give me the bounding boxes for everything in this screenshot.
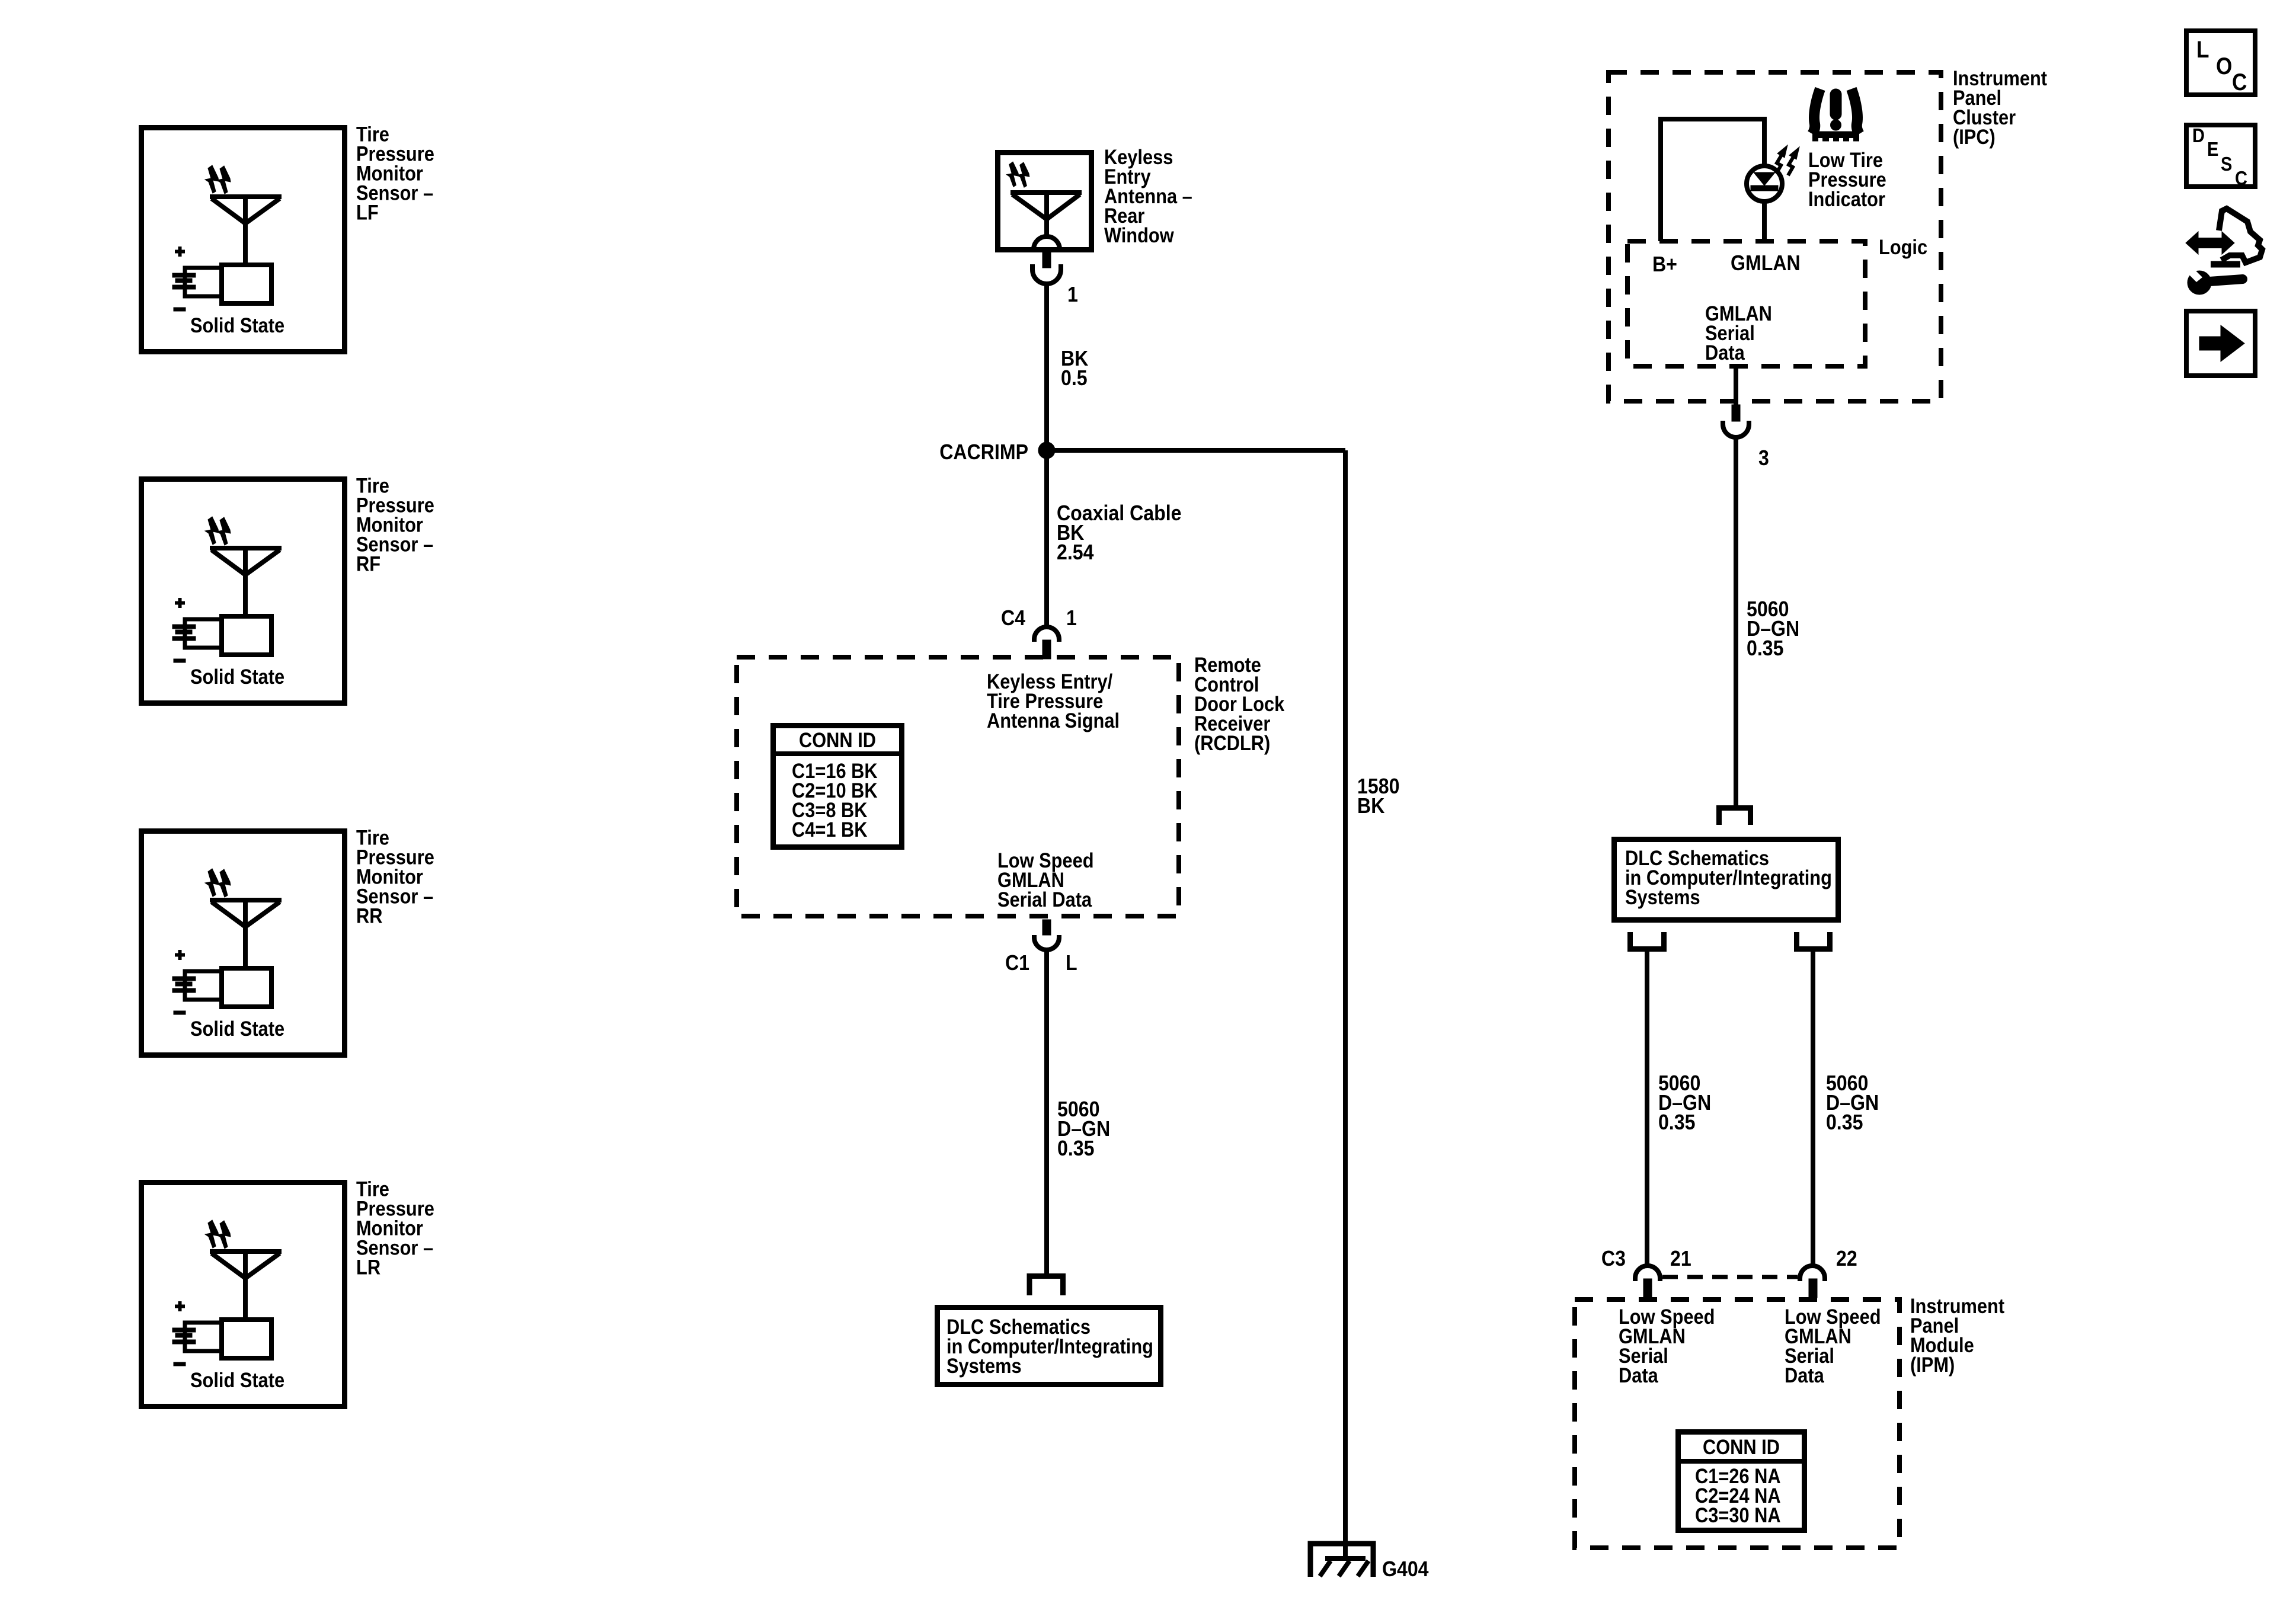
battery plates LR xyxy=(172,1328,196,1344)
connector 3 cup xyxy=(1723,421,1749,437)
antenna symbol LF xyxy=(210,197,282,265)
wrench icon xyxy=(2183,264,2243,295)
CACRIMP junction xyxy=(1038,442,1055,459)
svg-text:(IPM): (IPM) xyxy=(1910,1353,1955,1376)
RF waves symbol RF xyxy=(205,517,231,545)
connector C3 arc 22 xyxy=(1800,1266,1825,1281)
Solid State label RR xyxy=(190,1017,284,1040)
keyless antenna symbol xyxy=(1011,193,1082,236)
svg-text:1: 1 xyxy=(1066,606,1077,630)
svg-text:CONN ID: CONN ID xyxy=(1703,1435,1780,1458)
RCDLR antenna signal text xyxy=(987,670,1120,732)
bracket to DLC right xyxy=(1719,808,1751,825)
IPM dashed box xyxy=(1575,1299,1900,1548)
svg-text:Serial Data: Serial Data xyxy=(997,888,1092,911)
connector C4 cup xyxy=(1034,627,1059,642)
antenna symbol RF xyxy=(210,548,282,616)
svg-text:1: 1 xyxy=(1067,283,1078,306)
keyless antenna waves xyxy=(1006,162,1029,187)
label 5060 middle xyxy=(1057,1097,1110,1160)
svg-text:Logic: Logic xyxy=(1879,235,1927,258)
RF waves symbol LR xyxy=(205,1220,231,1249)
component outline icon xyxy=(2211,209,2262,264)
sensor body LR xyxy=(222,1320,271,1358)
CONN ID table RCDLR xyxy=(770,726,904,847)
Solid State label LR xyxy=(190,1368,284,1391)
LOC icon box xyxy=(2186,31,2255,95)
svg-text:22: 22 xyxy=(1836,1247,1857,1270)
svg-text:Solid State: Solid State xyxy=(190,313,284,337)
sensor body RF xyxy=(222,616,271,655)
connector C3 labels xyxy=(1601,1247,1857,1270)
wire junction to 1580 xyxy=(1047,448,1345,453)
antenna symbol RR xyxy=(210,900,282,968)
pin 1 female cup xyxy=(1032,264,1061,284)
forward arrow icon box xyxy=(2186,311,2255,376)
connector C4 stub xyxy=(1043,640,1051,659)
svg-text:Indicator: Indicator xyxy=(1808,187,1885,210)
label B+ xyxy=(1652,252,1677,276)
svg-text:Window: Window xyxy=(1104,223,1174,247)
svg-text:C1: C1 xyxy=(1005,951,1029,975)
DESC icon box xyxy=(2186,125,2255,187)
svg-text:0.35: 0.35 xyxy=(1658,1110,1695,1134)
connector C1 cup xyxy=(1034,935,1059,950)
connector 3 label xyxy=(1758,446,1769,470)
sensor box TPM LR xyxy=(142,1183,345,1407)
battery loop wire RR xyxy=(185,971,220,1000)
low tire pressure warning icon xyxy=(1812,89,1859,142)
connector bump on box xyxy=(1034,236,1060,249)
wire 5060 middle xyxy=(1044,950,1049,1276)
svg-text:L: L xyxy=(2196,36,2209,63)
svg-text:O: O xyxy=(2216,53,2232,79)
pin 1 male stub xyxy=(1043,251,1051,268)
wire logic out xyxy=(1734,366,1738,405)
svg-text:GMLAN: GMLAN xyxy=(1731,251,1801,275)
connector 3 stub xyxy=(1732,405,1740,421)
wire LED net xyxy=(1762,117,1767,241)
svg-text:Data: Data xyxy=(1619,1363,1658,1387)
svg-text:Data: Data xyxy=(1785,1363,1824,1387)
svg-text:0.5: 0.5 xyxy=(1061,366,1088,390)
plus sign LF xyxy=(175,247,185,257)
svg-text:Systems: Systems xyxy=(1625,885,1700,908)
ground G404 symbol xyxy=(1310,1544,1373,1577)
wire B+ net xyxy=(1661,119,1764,241)
sensor name label RR xyxy=(356,826,434,927)
svg-text:Data: Data xyxy=(1705,341,1745,364)
svg-text:C3: C3 xyxy=(1601,1247,1626,1270)
IPM low speed text 22 xyxy=(1785,1305,1881,1387)
svg-text:0.35: 0.35 xyxy=(1057,1137,1094,1160)
svg-text:Solid State: Solid State xyxy=(190,665,284,688)
svg-text:C4=1 BK: C4=1 BK xyxy=(792,818,868,841)
connector C4 labels xyxy=(1001,606,1077,630)
cup under DLC left xyxy=(1630,932,1664,949)
IPC dashed box xyxy=(1609,72,1941,401)
DLC schematics box middle xyxy=(938,1308,1161,1385)
Solid State label LF xyxy=(190,313,284,337)
svg-text:L: L xyxy=(1066,951,1077,975)
svg-text:CACRIMP: CACRIMP xyxy=(939,440,1028,464)
battery plates RF xyxy=(172,625,196,641)
svg-text:(RCDLR): (RCDLR) xyxy=(1194,731,1270,754)
keyless entry antenna box xyxy=(998,153,1092,250)
battery loop wire RF xyxy=(185,619,220,648)
svg-text:C4: C4 xyxy=(1001,606,1025,630)
minus sign RF xyxy=(174,659,186,662)
svg-text:C: C xyxy=(2232,69,2247,95)
svg-text:0.35: 0.35 xyxy=(1747,636,1783,660)
ground G404 label xyxy=(1382,1557,1429,1581)
connector C1 stub xyxy=(1043,920,1051,935)
svg-text:S: S xyxy=(2221,153,2232,175)
svg-text:Antenna Signal: Antenna Signal xyxy=(987,709,1120,732)
connector C3 arc 21 xyxy=(1635,1266,1660,1281)
RF waves symbol RR xyxy=(205,869,231,897)
svg-text:D: D xyxy=(2192,124,2205,146)
cup under DLC right xyxy=(1797,932,1830,949)
svg-text:LR: LR xyxy=(356,1256,380,1279)
RCDLR dashed box xyxy=(737,657,1179,916)
minus sign LF xyxy=(174,308,186,311)
plus sign RF xyxy=(175,598,185,608)
label 1580 BK xyxy=(1357,774,1399,818)
svg-text:3: 3 xyxy=(1758,446,1769,470)
sensor box TPM RR xyxy=(142,831,345,1055)
svg-text:2.54: 2.54 xyxy=(1057,540,1093,564)
svg-text:C: C xyxy=(2235,167,2247,189)
battery plates LF xyxy=(172,273,196,289)
sensor box TPM RF xyxy=(142,479,345,703)
DLC schematics box right xyxy=(1614,840,1838,920)
battery loop wire LF xyxy=(185,268,220,296)
connector C3 dashed link xyxy=(1662,1275,1798,1279)
connector C1 labels xyxy=(1005,951,1077,975)
keyless antenna label xyxy=(1104,145,1192,247)
CONN ID table IPM xyxy=(1675,1432,1807,1531)
logic dashed box xyxy=(1627,241,1865,366)
low tire pressure label xyxy=(1808,148,1886,210)
svg-text:Solid State: Solid State xyxy=(190,1017,284,1040)
svg-text:RR: RR xyxy=(356,904,383,927)
CACRIMP label xyxy=(939,440,1028,464)
label 5060 right top xyxy=(1747,597,1799,660)
svg-text:(IPC): (IPC) xyxy=(1953,125,1996,148)
wire 1580 BK xyxy=(1343,450,1348,1544)
sensor name label RF xyxy=(356,474,434,575)
IPM name label xyxy=(1910,1294,2004,1376)
wire 5060 to pin22 xyxy=(1811,952,1815,1266)
RCDLR low speed text xyxy=(997,849,1094,911)
battery loop wire LR xyxy=(185,1323,220,1351)
sensor body RR xyxy=(222,968,271,1007)
wire BK 0.5 xyxy=(1044,283,1049,453)
svg-text:LF: LF xyxy=(356,201,379,224)
svg-text:0.35: 0.35 xyxy=(1826,1110,1863,1134)
pin 1 label xyxy=(1067,283,1078,306)
sensor box TPM LF xyxy=(142,128,345,352)
svg-text:21: 21 xyxy=(1670,1247,1691,1270)
GMLAN serial data text IPC xyxy=(1705,302,1772,364)
svg-text:Systems: Systems xyxy=(946,1354,1022,1377)
sensor name label LR xyxy=(356,1177,434,1279)
svg-text:Solid State: Solid State xyxy=(190,1368,284,1391)
RCDLR name label xyxy=(1194,653,1285,754)
svg-text:C3=30 NA: C3=30 NA xyxy=(1695,1503,1781,1526)
svg-text:CONN ID: CONN ID xyxy=(799,728,876,751)
wire 5060 right top xyxy=(1734,437,1738,808)
label Logic xyxy=(1879,235,1927,258)
LED arrows xyxy=(1776,145,1799,175)
svg-text:E: E xyxy=(2207,138,2218,160)
svg-text:B+: B+ xyxy=(1652,252,1677,276)
sensor body LF xyxy=(222,265,271,303)
IPC name label xyxy=(1953,66,2047,148)
sensor name label LF xyxy=(356,123,434,224)
RF waves symbol LF xyxy=(205,165,231,194)
label GMLAN pin xyxy=(1731,251,1801,275)
Solid State label RF xyxy=(190,665,284,688)
IPM low speed text 21 xyxy=(1619,1305,1715,1387)
label 5060 pin21 xyxy=(1658,1071,1711,1134)
bracket to DLC middle xyxy=(1029,1276,1063,1296)
LED indicator xyxy=(1747,166,1782,201)
label BK 0.5 xyxy=(1061,347,1089,390)
svg-text:G404: G404 xyxy=(1382,1557,1429,1581)
battery plates RR xyxy=(172,977,196,993)
plus sign RR xyxy=(175,950,185,960)
plus sign LR xyxy=(175,1301,185,1311)
minus sign LR xyxy=(174,1362,186,1366)
antenna symbol LR xyxy=(210,1251,282,1320)
coaxial cable wire xyxy=(1044,450,1049,627)
svg-text:RF: RF xyxy=(356,552,380,575)
svg-text:BK: BK xyxy=(1357,794,1385,818)
label coaxial cable xyxy=(1057,501,1182,564)
wire 5060 to pin21 xyxy=(1645,952,1649,1266)
double arrow icon xyxy=(2186,232,2234,254)
minus sign RR xyxy=(174,1011,186,1014)
connector C3 stubs xyxy=(1643,1279,1817,1298)
label 5060 pin22 xyxy=(1826,1071,1879,1134)
